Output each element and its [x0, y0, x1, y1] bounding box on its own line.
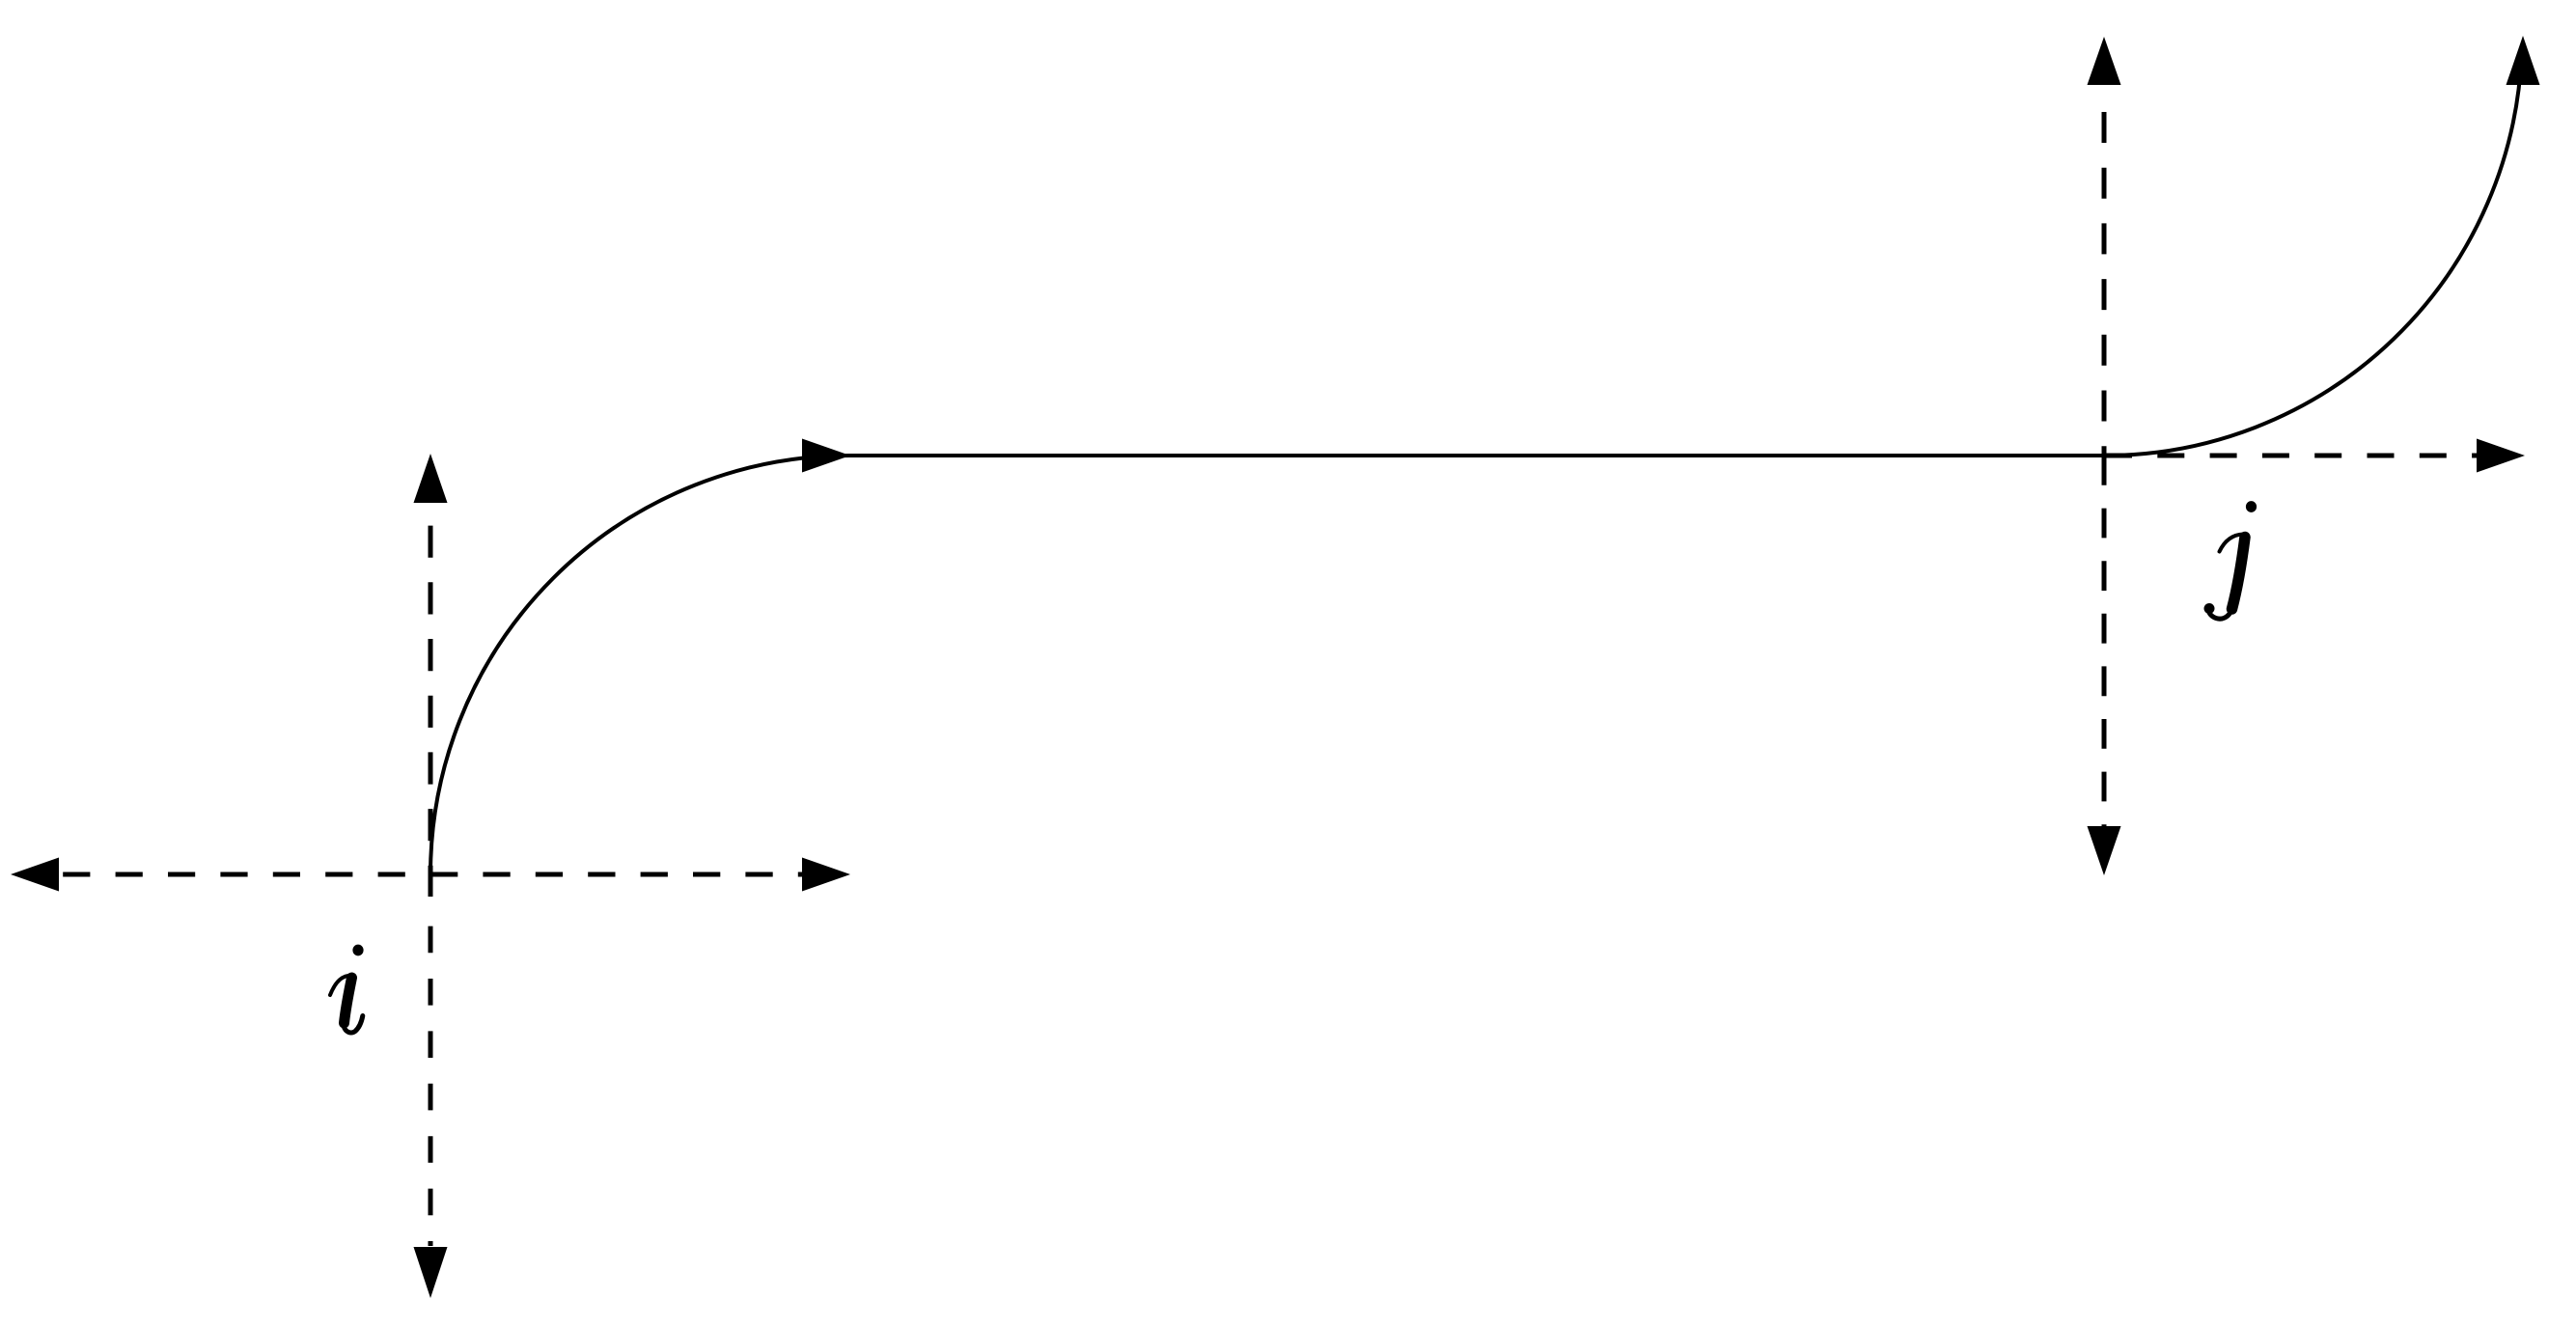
solid edge path from node i to node j (quarter arc, straight, quarter arc) — [430, 54, 2522, 874]
node i dashed y-axis up arm — [429, 503, 433, 897]
node j y-axis up arrowhead — [2088, 37, 2121, 85]
node i dashed x-axis right arm — [430, 872, 802, 877]
label i (math italic) — [330, 945, 364, 1033]
node i x-axis left arrowhead — [11, 858, 59, 892]
node j x-axis right arrowhead — [2477, 439, 2525, 473]
node j y-axis down arrowhead — [2088, 826, 2121, 875]
node j dashed y-axis up arm — [2102, 89, 2107, 477]
node i y-axis down arrowhead — [414, 1247, 448, 1298]
node i y-axis up arrowhead — [414, 454, 448, 503]
node i dashed x-axis left arm — [60, 872, 430, 877]
node i dashed y-axis down arm — [429, 927, 433, 1246]
label j (math italic) — [2204, 501, 2257, 619]
edge mid arrowhead (rightward) — [802, 439, 850, 473]
node i x-axis right arrowhead — [802, 858, 850, 892]
node j dashed x-axis right arm — [2105, 454, 2477, 458]
edge end arrowhead (upward) — [2507, 36, 2540, 85]
node j dashed y-axis down arm — [2102, 456, 2107, 826]
